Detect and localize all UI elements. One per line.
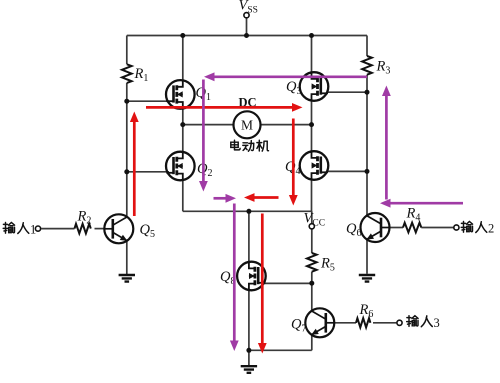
node top rail Vss — [244, 33, 249, 38]
node ground junction — [246, 348, 251, 353]
wire motor right lead — [260, 124, 312, 126]
wire left column R1 to Q5 collector — [126, 83, 128, 217]
resistor R6 — [356, 318, 370, 327]
node R5 gate Q7 — [309, 281, 314, 286]
svg-text:3: 3 — [434, 316, 440, 330]
resistor R2 — [75, 224, 91, 234]
resistor R4 — [403, 223, 421, 233]
wire left column top to R1 — [126, 36, 128, 65]
wire top supply rail — [127, 35, 367, 37]
wire input1 to R2 — [41, 228, 74, 230]
terminal input1 — [35, 226, 40, 231]
wire red arrow left bottom — [253, 196, 279, 199]
node Q1 gate tap — [124, 99, 129, 104]
node motor left — [180, 122, 185, 127]
wire node to Q7 collector — [311, 283, 313, 311]
wire R4 to input2 — [421, 227, 454, 229]
ground under Q6 — [359, 275, 375, 282]
mosfet Q1 — [166, 80, 195, 109]
wire red arrow down right — [292, 119, 295, 197]
terminal input2 — [454, 225, 459, 230]
wire bottom bridge rail — [183, 210, 312, 212]
wire purple arrow down bottom — [233, 204, 236, 343]
node bottom rail Q8 — [246, 209, 251, 214]
resistor R1 — [122, 64, 132, 83]
wire Q5 emitter to ground — [126, 241, 128, 275]
label input1 chinese — [3, 222, 36, 236]
wire purple arrow down middle — [202, 80, 205, 183]
node Q3 gate R3 — [365, 90, 370, 95]
wire R6 to input3 — [373, 322, 396, 324]
svg-text:2: 2 — [488, 222, 494, 236]
wire purple arrow left near input2 — [389, 202, 463, 205]
wire Q7 base to R6 — [334, 322, 356, 324]
wire ground stub bottom — [248, 350, 250, 365]
node motor right — [309, 122, 314, 127]
wire Q7 emitter down — [311, 335, 313, 350]
resistor R5 — [307, 253, 317, 272]
wire Vcc to R5 — [311, 229, 313, 253]
wire Q8 column lower — [248, 290, 250, 350]
wire left bridge column upper — [182, 36, 184, 81]
ground under Q5 — [119, 275, 135, 282]
transistor Q7 — [305, 308, 334, 337]
wire right bridge column lower — [311, 180, 313, 212]
svg-text:1: 1 — [30, 222, 36, 236]
wire Q7 emitter return — [249, 349, 312, 351]
resistor R3 — [362, 56, 372, 75]
terminal input3 — [397, 320, 402, 325]
wire R3 top branch — [366, 36, 368, 57]
node top rail right bridge — [309, 33, 314, 38]
terminal Vss — [244, 13, 249, 18]
wire motor left lead — [183, 124, 234, 126]
wire Q3 gate — [327, 91, 367, 93]
wire R3 bottom to Q6 collector column — [366, 75, 368, 216]
wire Q8 gate — [265, 282, 312, 284]
wire Q6 base to R4 — [390, 227, 404, 229]
label motor chinese — [231, 140, 269, 151]
ground bottom center — [241, 366, 257, 373]
wire right bridge column middle — [311, 101, 313, 152]
wire R2 to Q5 base — [95, 228, 105, 230]
svg-text:M: M — [241, 118, 253, 133]
wire Q8 column upper — [248, 211, 250, 262]
label input2 chinese — [461, 222, 494, 236]
wire red arrow right DC — [146, 106, 294, 109]
node Q4 gate Q6 — [365, 169, 370, 174]
wire red arrow up left — [133, 121, 136, 216]
wire Vss stub — [246, 18, 248, 35]
node top rail left bridge — [180, 33, 185, 38]
wire right bridge column upper — [311, 36, 313, 73]
wire red arrow down bottom — [261, 214, 264, 345]
wire Q6 emitter to ground — [366, 240, 368, 274]
label input3 chinese — [407, 316, 440, 330]
mosfet Q2 — [166, 152, 195, 181]
mosfet Q3 — [300, 72, 329, 101]
wire Q2 gate — [127, 171, 169, 173]
terminal Vcc — [309, 224, 314, 229]
transistor Q6 — [361, 213, 390, 242]
wire left bridge column middle — [182, 109, 184, 152]
wire Vcc stub — [311, 211, 313, 223]
wire R5 bottom to node — [311, 272, 313, 284]
wire purple arrow right small — [214, 197, 228, 200]
mosfet Q8 — [237, 262, 266, 291]
motor M circle — [234, 111, 261, 138]
node Q2 gate tap — [124, 169, 129, 174]
wire purple arrow left top — [214, 75, 368, 78]
wire Q4 gate — [327, 170, 367, 172]
wire purple arrow up right — [385, 95, 388, 200]
wire left bridge column lower — [182, 180, 184, 211]
wire Q1 gate — [127, 100, 169, 102]
mosfet Q4 — [300, 151, 329, 180]
transistor Q5 — [104, 214, 133, 243]
